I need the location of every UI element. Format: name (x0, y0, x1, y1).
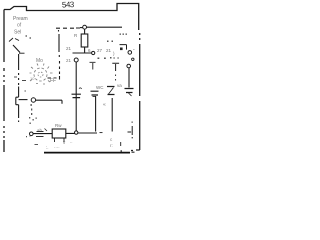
svg-text:«: « (103, 102, 106, 108)
svg-text:Mo: Mo (36, 58, 43, 64)
svg-text:..: .. (70, 139, 73, 144)
svg-text:Pream: Pream (13, 16, 28, 22)
svg-text:21: 21 (66, 58, 72, 63)
svg-text:of: of (17, 23, 22, 29)
svg-text::.: :. (46, 145, 49, 150)
svg-text:10: 10 (30, 76, 35, 81)
svg-text:543: 543 (62, 0, 75, 9)
svg-text:r:: r: (110, 143, 113, 148)
svg-text:.…: .… (54, 144, 60, 149)
svg-text:21: 21 (66, 46, 72, 51)
svg-text:ab: ab (37, 128, 43, 133)
svg-text:Rw: Rw (55, 123, 62, 128)
svg-text:21: 21 (106, 48, 112, 53)
svg-text:27: 27 (97, 48, 103, 53)
svg-text:va: va (117, 83, 122, 88)
svg-text:WC: WC (96, 85, 104, 90)
svg-text:6.: 6. (88, 48, 92, 53)
svg-text:Sel: Sel (14, 30, 21, 36)
svg-text:FF: FF (50, 78, 56, 84)
